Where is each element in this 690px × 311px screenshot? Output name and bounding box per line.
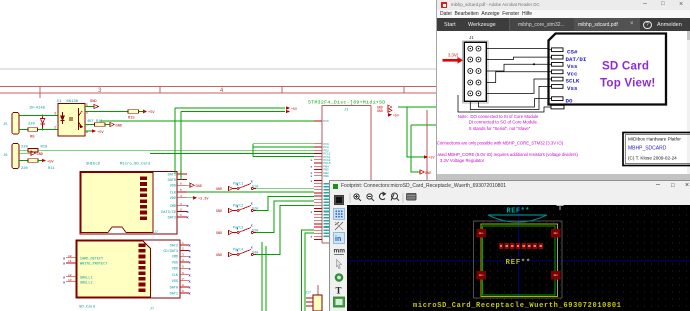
svg-text:x: x (311, 211, 313, 214)
svg-text:7: 7 (182, 278, 184, 281)
svg-text:GND: GND (425, 171, 431, 175)
svg-text:2: 2 (180, 209, 182, 212)
svg-text:5: 5 (182, 265, 184, 268)
svg-text:GND: GND (90, 100, 97, 104)
svg-text:x: x (237, 205, 239, 209)
svg-text:x: x (189, 287, 192, 291)
svg-text:DAT0: DAT0 (170, 286, 178, 290)
svg-text:x: x (63, 281, 66, 285)
svg-text:DI connected to SO of Core Mod: DI connected to SO of Core Module (469, 119, 538, 124)
svg-text:REF**: REF** (507, 207, 531, 215)
svg-text:2: 2 (182, 248, 184, 251)
svg-text:x: x (311, 175, 313, 178)
svg-text:8: 8 (182, 284, 184, 287)
svg-text:x: x (189, 250, 192, 254)
svg-text:6: 6 (180, 182, 182, 185)
svg-text:1: 1 (180, 214, 182, 217)
svg-text:GND: GND (116, 124, 123, 128)
svg-text:SD_Card: SD_Card (79, 305, 95, 310)
svg-text:x: x (189, 256, 192, 260)
svg-text:x: x (237, 183, 239, 187)
svg-text:x: x (63, 276, 66, 280)
svg-text:x: x (251, 180, 253, 184)
svg-text:+5V: +5V (47, 160, 54, 164)
svg-text:13: 13 (68, 279, 72, 282)
svg-text:1N-4148: 1N-4148 (29, 106, 46, 110)
svg-text:T: T (336, 286, 342, 296)
svg-text:Micro_SD_Card: Micro_SD_Card (120, 162, 150, 167)
svg-text:DAT3/CD: DAT3/CD (161, 210, 176, 215)
svg-text:CS#: CS# (567, 48, 578, 55)
svg-text:CD/DAT3: CD/DAT3 (163, 249, 178, 254)
svg-text:+3.3V: +3.3V (198, 198, 209, 202)
svg-text:x: x (187, 211, 190, 215)
svg-text:SCLK: SCLK (566, 78, 580, 85)
svg-text:x: x (237, 227, 239, 231)
svg-text:R9: R9 (30, 136, 35, 140)
svg-text:4K7 R17: 4K7 R17 (87, 120, 103, 124)
svg-text:DAT1: DAT1 (170, 292, 178, 296)
svg-text:+5V: +5V (393, 114, 399, 118)
svg-text:MIDIbox Hardware Platfor: MIDIbox Hardware Platfor (628, 137, 681, 142)
svg-text:Vss: Vss (567, 85, 578, 92)
svg-text:DAT/DI: DAT/DI (566, 56, 587, 63)
svg-text:x: x (63, 257, 66, 261)
svg-text:11: 11 (68, 260, 72, 263)
svg-text:x: x (63, 262, 66, 266)
svg-text:J1: J1 (344, 109, 349, 113)
svg-text:J7: J7 (154, 230, 158, 234)
svg-text:GND: GND (216, 254, 222, 258)
svg-text:10: 10 (68, 255, 72, 258)
svg-text:PC6: PC6 (324, 120, 329, 123)
svg-text:U1 6N136: U1 6N136 (57, 100, 79, 104)
svg-text:CLK: CLK (172, 274, 179, 278)
svg-text:3: 3 (180, 203, 182, 206)
svg-text:1: 1 (182, 242, 184, 245)
svg-text:DAT2: DAT2 (170, 244, 178, 248)
svg-text:R15: R15 (128, 117, 135, 121)
svg-text:SHELL2: SHELL2 (80, 281, 93, 285)
svg-text:x: x (189, 245, 192, 249)
svg-text:x: x (251, 202, 253, 206)
svg-text:mm: mm (334, 248, 346, 255)
svg-text:x: x (189, 268, 192, 272)
svg-text:+5V: +5V (291, 107, 297, 111)
svg-text:VDD: VDD (170, 197, 176, 201)
svg-text:J17: J17 (305, 291, 311, 295)
svg-text:J7: J7 (150, 307, 154, 311)
svg-text:R10: R10 (41, 146, 49, 150)
svg-text:Vcc: Vcc (567, 70, 578, 77)
svg-text:DAT2: DAT2 (168, 216, 176, 220)
svg-text:PB9: PB9 (324, 175, 329, 178)
svg-text:VSS: VSS (170, 185, 176, 189)
svg-text:Top View!: Top View! (600, 77, 655, 90)
svg-text:J6: J6 (3, 154, 8, 158)
svg-text:Vss: Vss (567, 63, 578, 70)
svg-text:R11: R11 (48, 167, 56, 171)
svg-text:REF**: REF** (506, 259, 532, 267)
svg-text:GND: GND (216, 210, 222, 214)
svg-text:6: 6 (182, 272, 184, 275)
svg-text:WRITE_PROTECT: WRITE_PROTECT (80, 262, 107, 266)
svg-text:GND: GND (37, 153, 44, 157)
svg-text:3.3V Voltage Regulator: 3.3V Voltage Regulator (440, 158, 485, 163)
svg-text:(C) T. Klose 2009-02-24: (C) T. Klose 2009-02-24 (628, 156, 677, 161)
svg-text:x: x (251, 246, 253, 250)
svg-text:x: x (311, 180, 313, 183)
svg-text:3: 3 (54, 112, 56, 116)
svg-text:VSS: VSS (172, 261, 178, 265)
svg-text:SD Card: SD Card (602, 60, 649, 73)
svg-text:DAT1: DAT1 (168, 173, 176, 177)
svg-text:x: x (189, 274, 192, 278)
svg-text:ased MBHP_CORE (5.0V IO) requi: ased MBHP_CORE (5.0V IO) requires additi… (438, 152, 579, 157)
svg-text:t Connections are only possibl: t Connections are only possible with MBH… (437, 141, 564, 146)
svg-text:x: x (189, 262, 192, 266)
svg-text:VSS: VSS (172, 280, 178, 284)
svg-text:+5V: +5V (429, 156, 435, 160)
svg-text:GND: GND (216, 232, 222, 236)
svg-text:2: 2 (54, 126, 56, 130)
svg-text:MBHP_SDCARD: MBHP_SDCARD (628, 145, 667, 151)
svg-text:microSD_Card_Receptacle_Wuerth: microSD_Card_Receptacle_Wuerth_693072010… (413, 302, 622, 310)
svg-text:CLK: CLK (170, 191, 177, 195)
svg-text:GND: GND (196, 185, 202, 189)
svg-text:STM32F4_Disc-[89+Midi+SD: STM32F4_Disc-[89+Midi+SD (308, 100, 386, 106)
svg-text:4: 4 (182, 259, 184, 262)
svg-text:GND: GND (377, 109, 383, 113)
svg-text:5: 5 (180, 189, 182, 192)
svg-text:+5V: +5V (148, 111, 155, 115)
svg-text:SHIELD: SHIELD (86, 163, 101, 167)
svg-text:x: x (189, 293, 192, 297)
svg-text:CMD: CMD (170, 205, 176, 209)
svg-text:J1: J1 (469, 35, 474, 40)
svg-text:x: x (187, 217, 190, 221)
svg-text:+5V: +5V (97, 131, 104, 135)
svg-text:DO: DO (566, 97, 573, 104)
svg-text:S stands for "Serial", not "Sl: S stands for "Serial", not "Slave" (469, 126, 531, 131)
svg-text:CARD_DETECT: CARD_DETECT (80, 257, 103, 261)
svg-text:x: x (187, 205, 190, 209)
svg-text:in: in (335, 236, 341, 243)
svg-text:x: x (311, 236, 313, 239)
svg-text:x: x (237, 249, 239, 253)
svg-text:SHELL1: SHELL1 (80, 276, 93, 280)
svg-text:220: 220 (21, 167, 29, 171)
svg-text:3.3V(: 3.3V( (448, 53, 459, 58)
svg-text:x: x (311, 159, 313, 162)
svg-text:x: x (251, 224, 253, 228)
svg-text:J5: J5 (3, 123, 8, 127)
svg-text:CMD: CMD (172, 256, 178, 260)
svg-text:12: 12 (68, 274, 72, 277)
svg-text:VDD: VDD (172, 268, 178, 272)
svg-text:4: 4 (180, 195, 182, 198)
svg-text:3: 3 (182, 253, 184, 256)
svg-text:x: x (311, 166, 313, 169)
svg-text:DAT0: DAT0 (168, 179, 176, 183)
svg-text:220: 220 (21, 146, 29, 150)
svg-text:9: 9 (182, 290, 184, 293)
svg-text:x: x (189, 280, 192, 284)
svg-text:220: 220 (28, 123, 36, 127)
svg-text:GND: GND (216, 188, 222, 192)
